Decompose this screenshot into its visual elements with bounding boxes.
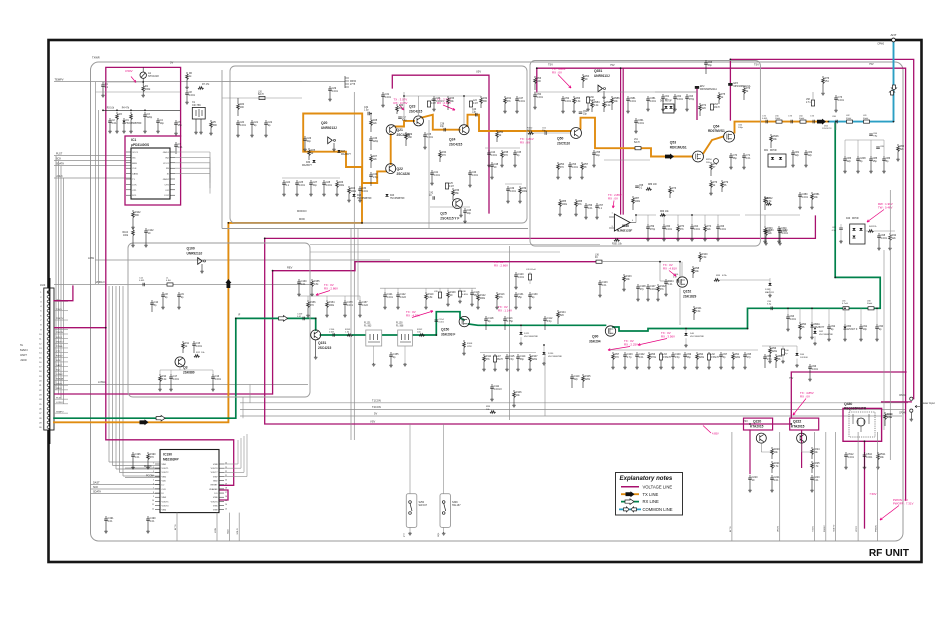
transistor Q23 2SC4215 (414, 116, 424, 126)
voltage line 75V top right outer (730, 59, 913, 398)
resistors below IC1 (132, 210, 134, 212)
svg-text:SCK: SCK (56, 157, 61, 160)
transistor Q90 3SK294 (605, 326, 615, 336)
svg-text:0.82H: 0.82H (462, 294, 468, 296)
svg-text:Q22: Q22 (397, 167, 404, 171)
svg-text:UNIT: UNIT (20, 353, 27, 357)
capacitor C35 (424, 132, 426, 135)
svg-text:0.001: 0.001 (848, 456, 855, 459)
resistor R103q (623, 274, 625, 276)
svg-text:TXWR: TXWR (92, 56, 100, 60)
resistor R31 (480, 96, 482, 98)
svg-text:2.5p: 2.5p (675, 356, 680, 359)
transistor Q24 2SC4215 (459, 125, 469, 135)
wire PCON stub (125, 477, 160, 479)
svg-text:14: 14 (225, 504, 227, 506)
resistor R78 (669, 186, 671, 188)
svg-text:TX LINE: TX LINE (643, 492, 659, 497)
diode pack D64 (768, 154, 786, 167)
svg-text:15p: 15p (518, 296, 523, 299)
svg-text:U5V: U5V (476, 70, 481, 74)
capacitor C8 (186, 90, 188, 93)
resistor R946 (770, 134, 772, 136)
wire PA rail y160 (604, 159, 650, 161)
svg-text:2SC4215: 2SC4215 (318, 346, 332, 350)
diode D23 (385, 194, 388, 197)
svg-text:18: 18 (225, 488, 227, 490)
wires Q220 area (760, 443, 762, 452)
svg-text:R108: R108 (467, 343, 473, 345)
diode pack D61 (663, 104, 674, 113)
inductor L82 on common line (847, 120, 853, 123)
resistor R54 row (557, 162, 559, 164)
svg-text:D61 R670F: D61 R670F (660, 101, 672, 103)
resistor R153 on RX (347, 334, 352, 337)
resistor R152 on RX (419, 334, 424, 337)
svg-text:HVC350BTRF: HVC350BTRF (390, 198, 405, 200)
svg-text:TSVS: TSVS (813, 526, 815, 532)
resistor R64 (582, 74, 584, 76)
capacitor C111 (491, 384, 493, 387)
LO section box (128, 243, 310, 397)
voltage line long horizontal y238 (265, 216, 816, 238)
capacitor C32 on TX line (368, 112, 369, 116)
capacitor C155 (390, 352, 392, 355)
inductor L53 (710, 104, 713, 110)
wire q152 gate (601, 261, 660, 263)
svg-text:SQL: SQL (56, 369, 61, 371)
capacitor C103q (599, 280, 601, 283)
svg-text:15p: 15p (873, 160, 878, 163)
capacitor C154 on riser (435, 320, 439, 321)
svg-text:SQL: SQL (438, 532, 440, 537)
svg-text:VCC1: VCC1 (132, 152, 139, 154)
resistor R301 (614, 239, 620, 242)
svg-text:TEMPV: TEMPV (55, 77, 64, 81)
legend tx line (621, 493, 639, 495)
svg-text:100: 100 (537, 80, 542, 83)
capacitor C93 (787, 314, 789, 317)
filter FL150 (398, 330, 413, 346)
svg-text:UNLK: UNLK (56, 388, 62, 390)
svg-text:COMMON LINE: COMMON LINE (643, 507, 673, 512)
svg-text:100k: 100k (635, 200, 641, 203)
svg-text:L26 62nH: L26 62nH (526, 269, 536, 271)
svg-text:TDETV: TDETV (834, 524, 836, 532)
svg-text:EP2: EP2 (700, 86, 705, 88)
svg-text:R60 10k: R60 10k (660, 211, 669, 213)
capacitor C381 (647, 96, 649, 99)
capacitor C159 on RX line (303, 317, 304, 321)
resistor R27 (370, 154, 372, 156)
inner unit boundary box (91, 62, 904, 541)
TX line Q21 to Q23 (396, 121, 415, 127)
voltage line 75V top right inner (537, 68, 906, 500)
svg-text:4: 4 (153, 475, 154, 477)
svg-text:0.001: 0.001 (189, 94, 196, 97)
wire stub y186 (505, 183, 522, 185)
svg-text:390: 390 (483, 100, 488, 103)
wires IC190 right side loop (224, 463, 238, 465)
svg-text:CPW0: CPW0 (877, 44, 884, 46)
svg-text:470p: 470p (689, 98, 695, 101)
row C108 C107 R102 (637, 284, 639, 287)
inductor L20 (259, 96, 265, 99)
svg-text:GND: GND (213, 481, 218, 483)
resistor R984 on riser (591, 100, 593, 102)
svg-text:LOWU: LOWU (98, 380, 106, 384)
wire 2NDLO horizontal (54, 284, 310, 286)
svg-text:2SC5110: 2SC5110 (557, 142, 570, 146)
crystal X1 (192, 107, 205, 119)
svg-text:5V: 5V (170, 61, 173, 65)
resistor R12 (194, 355, 200, 358)
svg-text:50nH: 50nH (863, 118, 869, 120)
svg-text:4.7nH: 4.7nH (842, 303, 848, 305)
svg-text:34p: 34p (307, 140, 312, 143)
inductor L25 (445, 183, 448, 189)
svg-text:75V: 75V (789, 377, 794, 380)
inductor L81g (843, 307, 849, 310)
wire vertical trunk x510 (509, 246, 511, 420)
svg-text:TDETV: TDETV (56, 318, 64, 320)
svg-text:180: 180 (408, 136, 413, 139)
svg-text:0.001: 0.001 (812, 368, 819, 371)
svg-text:0.001: 0.001 (666, 228, 673, 231)
resistor R42 (889, 233, 891, 235)
capacitor C73 (835, 95, 837, 98)
wire rail y180 (282, 177, 340, 179)
svg-text:100k: 100k (351, 190, 357, 193)
svg-text:220k: 220k (699, 356, 705, 359)
wire left bus verticals (95, 82, 97, 284)
svg-text:0.01: 0.01 (178, 146, 183, 149)
diode D121 (519, 332, 522, 335)
svg-text:5V: 5V (374, 412, 377, 416)
svg-text:100k: 100k (339, 184, 345, 187)
TX line arrow at MOD (140, 419, 149, 425)
voltage line IC1 wrap box (125, 136, 181, 205)
resistor R70 (710, 180, 712, 182)
voltage line Q220 emitter feed (749, 430, 751, 474)
inductor L26 (528, 274, 531, 280)
svg-text:0.001: 0.001 (139, 280, 145, 282)
svg-text:SCK: SCK (56, 360, 61, 362)
connector pin 9 (47, 328, 50, 331)
wire PA rail y92 (534, 91, 697, 93)
svg-text:Power Input: Power Input (921, 401, 935, 405)
svg-text:SDATA: SDATA (56, 378, 64, 381)
capacitor C106 series (677, 279, 678, 283)
resistor R90g (799, 322, 801, 324)
svg-text:J100: J100 (40, 284, 46, 287)
capacitor C118c (485, 316, 487, 319)
svg-text:0.1: 0.1 (105, 86, 109, 89)
svg-text:0.001: 0.001 (332, 90, 339, 93)
legend explanatory notes box (616, 473, 683, 516)
wire rail y300 (299, 295, 360, 297)
svg-text:7.50V: 7.50V (869, 492, 876, 496)
svg-text:SOLO: SOLO (56, 337, 62, 339)
diode D94 (795, 353, 798, 356)
capacitor C57 (596, 203, 598, 206)
transistor Q3 2SK880 (175, 357, 185, 367)
resistor R71 (710, 162, 712, 164)
capacitor C1 (102, 82, 104, 85)
svg-text:2: 2 (153, 467, 154, 469)
TX line Q24 onward (468, 115, 571, 131)
svg-text:PTT: PTT (404, 532, 406, 537)
connector pin 16 (47, 361, 50, 364)
svg-text:0.001: 0.001 (838, 99, 845, 102)
svg-text:SOLO: SOLO (237, 528, 239, 534)
svg-text:470: 470 (310, 304, 315, 307)
svg-text:27p: 27p (747, 356, 752, 359)
transistor Q151 2SC4215 (311, 330, 321, 340)
svg-text:0.1: 0.1 (599, 207, 603, 210)
svg-text:ATTS: ATTS (729, 526, 732, 532)
svg-text:RX LINE: RX LINE (643, 499, 659, 504)
svg-text:2SC4226: 2SC4226 (397, 172, 411, 176)
RX line IF from connector (54, 318, 316, 418)
svg-text:RSQ035P03TR: RSQ035P03TR (844, 407, 867, 411)
wire rail x470 y150 (485, 147, 520, 149)
svg-text:FL151: FL151 (364, 323, 371, 325)
wire rail y288 (380, 287, 476, 289)
svg-text:SW-167: SW-167 (419, 504, 428, 507)
svg-text:220p: 220p (373, 140, 379, 143)
inductor L50 (586, 97, 589, 103)
COMMON line horizontal (828, 121, 893, 123)
svg-text:PWON: PWON (875, 525, 877, 532)
resistor R982 (766, 203, 772, 206)
diode D60g (844, 324, 846, 327)
RX line open arrow 1 (156, 415, 165, 421)
svg-text:TSV: TSV (548, 64, 553, 67)
svg-text:R670F: R670F (770, 150, 777, 152)
svg-text:0.21: 0.21 (668, 283, 673, 286)
svg-text:0.001 F: 0.001 F (494, 388, 503, 391)
svg-text:Q150: Q150 (441, 328, 449, 332)
extra parts lower TX box (469, 170, 471, 173)
svg-text:9: 9 (153, 496, 154, 498)
svg-text:47p: 47p (640, 288, 645, 291)
extra parts right of Q23 col1 (504, 96, 506, 98)
svg-text:Q24: Q24 (449, 138, 456, 142)
resistor R224 (811, 447, 813, 449)
wire DAST to IC190 (91, 484, 161, 486)
svg-text:0.001: 0.001 (537, 96, 544, 99)
svg-text:33p: 33p (520, 358, 525, 361)
svg-text:2SC4215: 2SC4215 (449, 143, 463, 147)
svg-text:D22: D22 (357, 195, 362, 197)
svg-text:IC30: IC30 (622, 224, 629, 228)
svg-text:26S: 26S (706, 162, 710, 164)
svg-text:56p: 56p (687, 356, 692, 359)
TX line Q22 to Q21 (390, 135, 392, 165)
TX line Q53 to Q54 (704, 137, 724, 153)
capacitor C50 (534, 92, 536, 95)
svg-text:0.1H: 0.1H (473, 103, 478, 105)
svg-text:GND2: GND2 (163, 179, 170, 181)
capacitor C56 (585, 203, 587, 206)
svg-text:Q100: Q100 (187, 247, 195, 251)
svg-text:13: 13 (225, 508, 227, 510)
caps row right of IC30 (647, 224, 649, 227)
svg-text:REV: REV (287, 266, 293, 270)
resistor R41 (868, 230, 874, 233)
TX line Q50 to Q53 (581, 118, 693, 157)
ATTS vertical (176, 513, 178, 541)
wires Q3 section (160, 369, 213, 371)
grey verticals bottom right (731, 432, 733, 541)
capacitor C118r (471, 290, 473, 293)
svg-text:2SC4215 Y F: 2SC4215 Y F (440, 217, 459, 221)
capacitor C90g (876, 324, 878, 327)
svg-text:1.5p: 1.5p (373, 176, 378, 179)
resistor R984b (603, 100, 605, 102)
svg-text:J100: J100 (20, 358, 27, 362)
transistor Q53 RD01MUS1 (693, 151, 704, 162)
diode D30 (312, 160, 315, 163)
svg-text:2SK880: 2SK880 (183, 371, 195, 375)
svg-text:18nH: 18nH (775, 118, 781, 120)
svg-text:4.85V: 4.85V (712, 432, 719, 436)
capacitor C55 (593, 150, 595, 153)
wires TX chain interconnect (370, 114, 372, 119)
capacitor C130 (529, 292, 531, 295)
svg-text:DAST: DAST (93, 481, 100, 484)
svg-text:0.022: 0.022 (400, 296, 407, 299)
svg-text:LOK: LOK (132, 184, 137, 186)
svg-text:0.001: 0.001 (385, 96, 392, 99)
wires detector (865, 230, 868, 232)
extra parts x508 y190 (507, 186, 509, 189)
connector pin 24 (47, 398, 50, 401)
diode D182 (768, 283, 771, 286)
svg-text:RX : 2.86V: RX : 2.86V (324, 287, 338, 291)
svg-text:0.001: 0.001 (299, 184, 306, 187)
svg-text:D61: D61 (764, 150, 769, 152)
capacitor C31 col (382, 92, 384, 95)
resistor R32 col (439, 150, 441, 152)
resistor R6 (186, 72, 188, 74)
svg-text:0.001: 0.001 (694, 228, 701, 231)
svg-text:DATA: DATA (132, 173, 138, 176)
voltage line 75V right drop to Q222 (791, 372, 906, 418)
svg-text:0.56nH: 0.56nH (711, 356, 719, 359)
wire rail y110 (103, 109, 180, 111)
bus verticals from IC1 signals to connector (55, 156, 57, 390)
connector pin 8 (47, 323, 50, 326)
svg-text:1.8k: 1.8k (428, 296, 433, 299)
svg-text:VOUT1: VOUT1 (162, 468, 170, 470)
svg-text:VCC2: VCC2 (163, 163, 170, 165)
svg-text:T1CON: T1CON (372, 398, 381, 402)
svg-text:0.001: 0.001 (518, 276, 525, 279)
capacitor C3 (144, 112, 146, 115)
wire MODC stub (125, 467, 160, 469)
svg-text:0.001: 0.001 (196, 345, 203, 348)
svg-text:RX : 0V: RX : 0V (552, 71, 562, 75)
resistor R96r (769, 346, 771, 348)
resistor R7 (198, 87, 204, 90)
svg-text:HVC350BTRF: HVC350BTRF (357, 198, 372, 200)
svg-text:Explanatory notes: Explanatory notes (620, 475, 673, 482)
row right of Q90 under green (612, 352, 614, 354)
resistor R240 (884, 412, 886, 414)
voltage line Q220 box (744, 418, 773, 430)
svg-text:LOINV: LOINV (56, 374, 63, 376)
resistor R156 row (307, 300, 309, 302)
wire feedback band 2 (310, 251, 560, 253)
svg-text:0.01: 0.01 (746, 157, 751, 160)
svg-text:470: 470 (560, 166, 565, 169)
capacitor C70 (730, 153, 732, 156)
svg-text:0.001: 0.001 (510, 190, 517, 193)
voltage line REV loop (273, 262, 597, 394)
svg-text:R3 10k: R3 10k (107, 108, 115, 110)
svg-text:LOW: LOW (88, 256, 94, 260)
svg-text:0.001: 0.001 (572, 166, 579, 169)
svg-text:10p: 10p (863, 328, 868, 331)
svg-text:D27: D27 (341, 151, 346, 153)
svg-text:PLST: PLST (56, 397, 62, 399)
voltage line EP2 drop (696, 87, 698, 120)
svg-text:VOLTAGE LINE: VOLTAGE LINE (643, 484, 673, 489)
svg-text:120: 120 (702, 107, 707, 110)
svg-text:Q20: Q20 (321, 121, 328, 125)
capacitor C17 (170, 374, 172, 377)
resistor R11 C15 (182, 341, 184, 343)
svg-text:Q152: Q152 (683, 290, 691, 294)
capacitor C4 (157, 118, 159, 121)
svg-text:0.001 U: 0.001 U (436, 100, 445, 103)
svg-text:390: 390 (213, 124, 218, 127)
extra res col right of D40 (811, 192, 813, 194)
resistor R190 (147, 452, 149, 454)
svg-text:R7 47k: R7 47k (202, 84, 210, 86)
svg-text:1.5p: 1.5p (509, 358, 514, 361)
svg-text:R30: R30 (399, 105, 404, 107)
voltage line mid vertical trunk (265, 238, 792, 424)
svg-text:3.5p: 3.5p (547, 320, 552, 323)
svg-text:12: 12 (152, 508, 154, 510)
svg-text:0.1H: 0.1H (431, 103, 436, 105)
connector pin 13 (47, 347, 50, 350)
svg-text:11: 11 (152, 504, 154, 506)
LOW vertical (216, 513, 218, 541)
capacitor C81 C82 (792, 150, 794, 153)
svg-text:VOUT5: VOUT5 (162, 501, 170, 503)
inductor L99 (438, 292, 441, 298)
wires IC1 outputs right (175, 151, 210, 153)
resistor R3 (116, 112, 118, 114)
capacitor C196 (132, 452, 134, 455)
resistor R35 (452, 188, 454, 190)
svg-text:PLST: PLST (56, 152, 63, 155)
svg-text:DAST: DAST (56, 364, 62, 367)
connector pin 23 (47, 393, 50, 396)
wire S250 up (409, 424, 411, 494)
connector pin 2 (47, 296, 50, 299)
extra parts below Q24 3 (514, 150, 516, 153)
svg-text:0.001: 0.001 (762, 118, 768, 120)
connector pin 15 (47, 356, 50, 359)
wire rail y94 (655, 91, 697, 93)
svg-text:R240: R240 (887, 414, 893, 416)
connector pin 3 (47, 300, 50, 303)
